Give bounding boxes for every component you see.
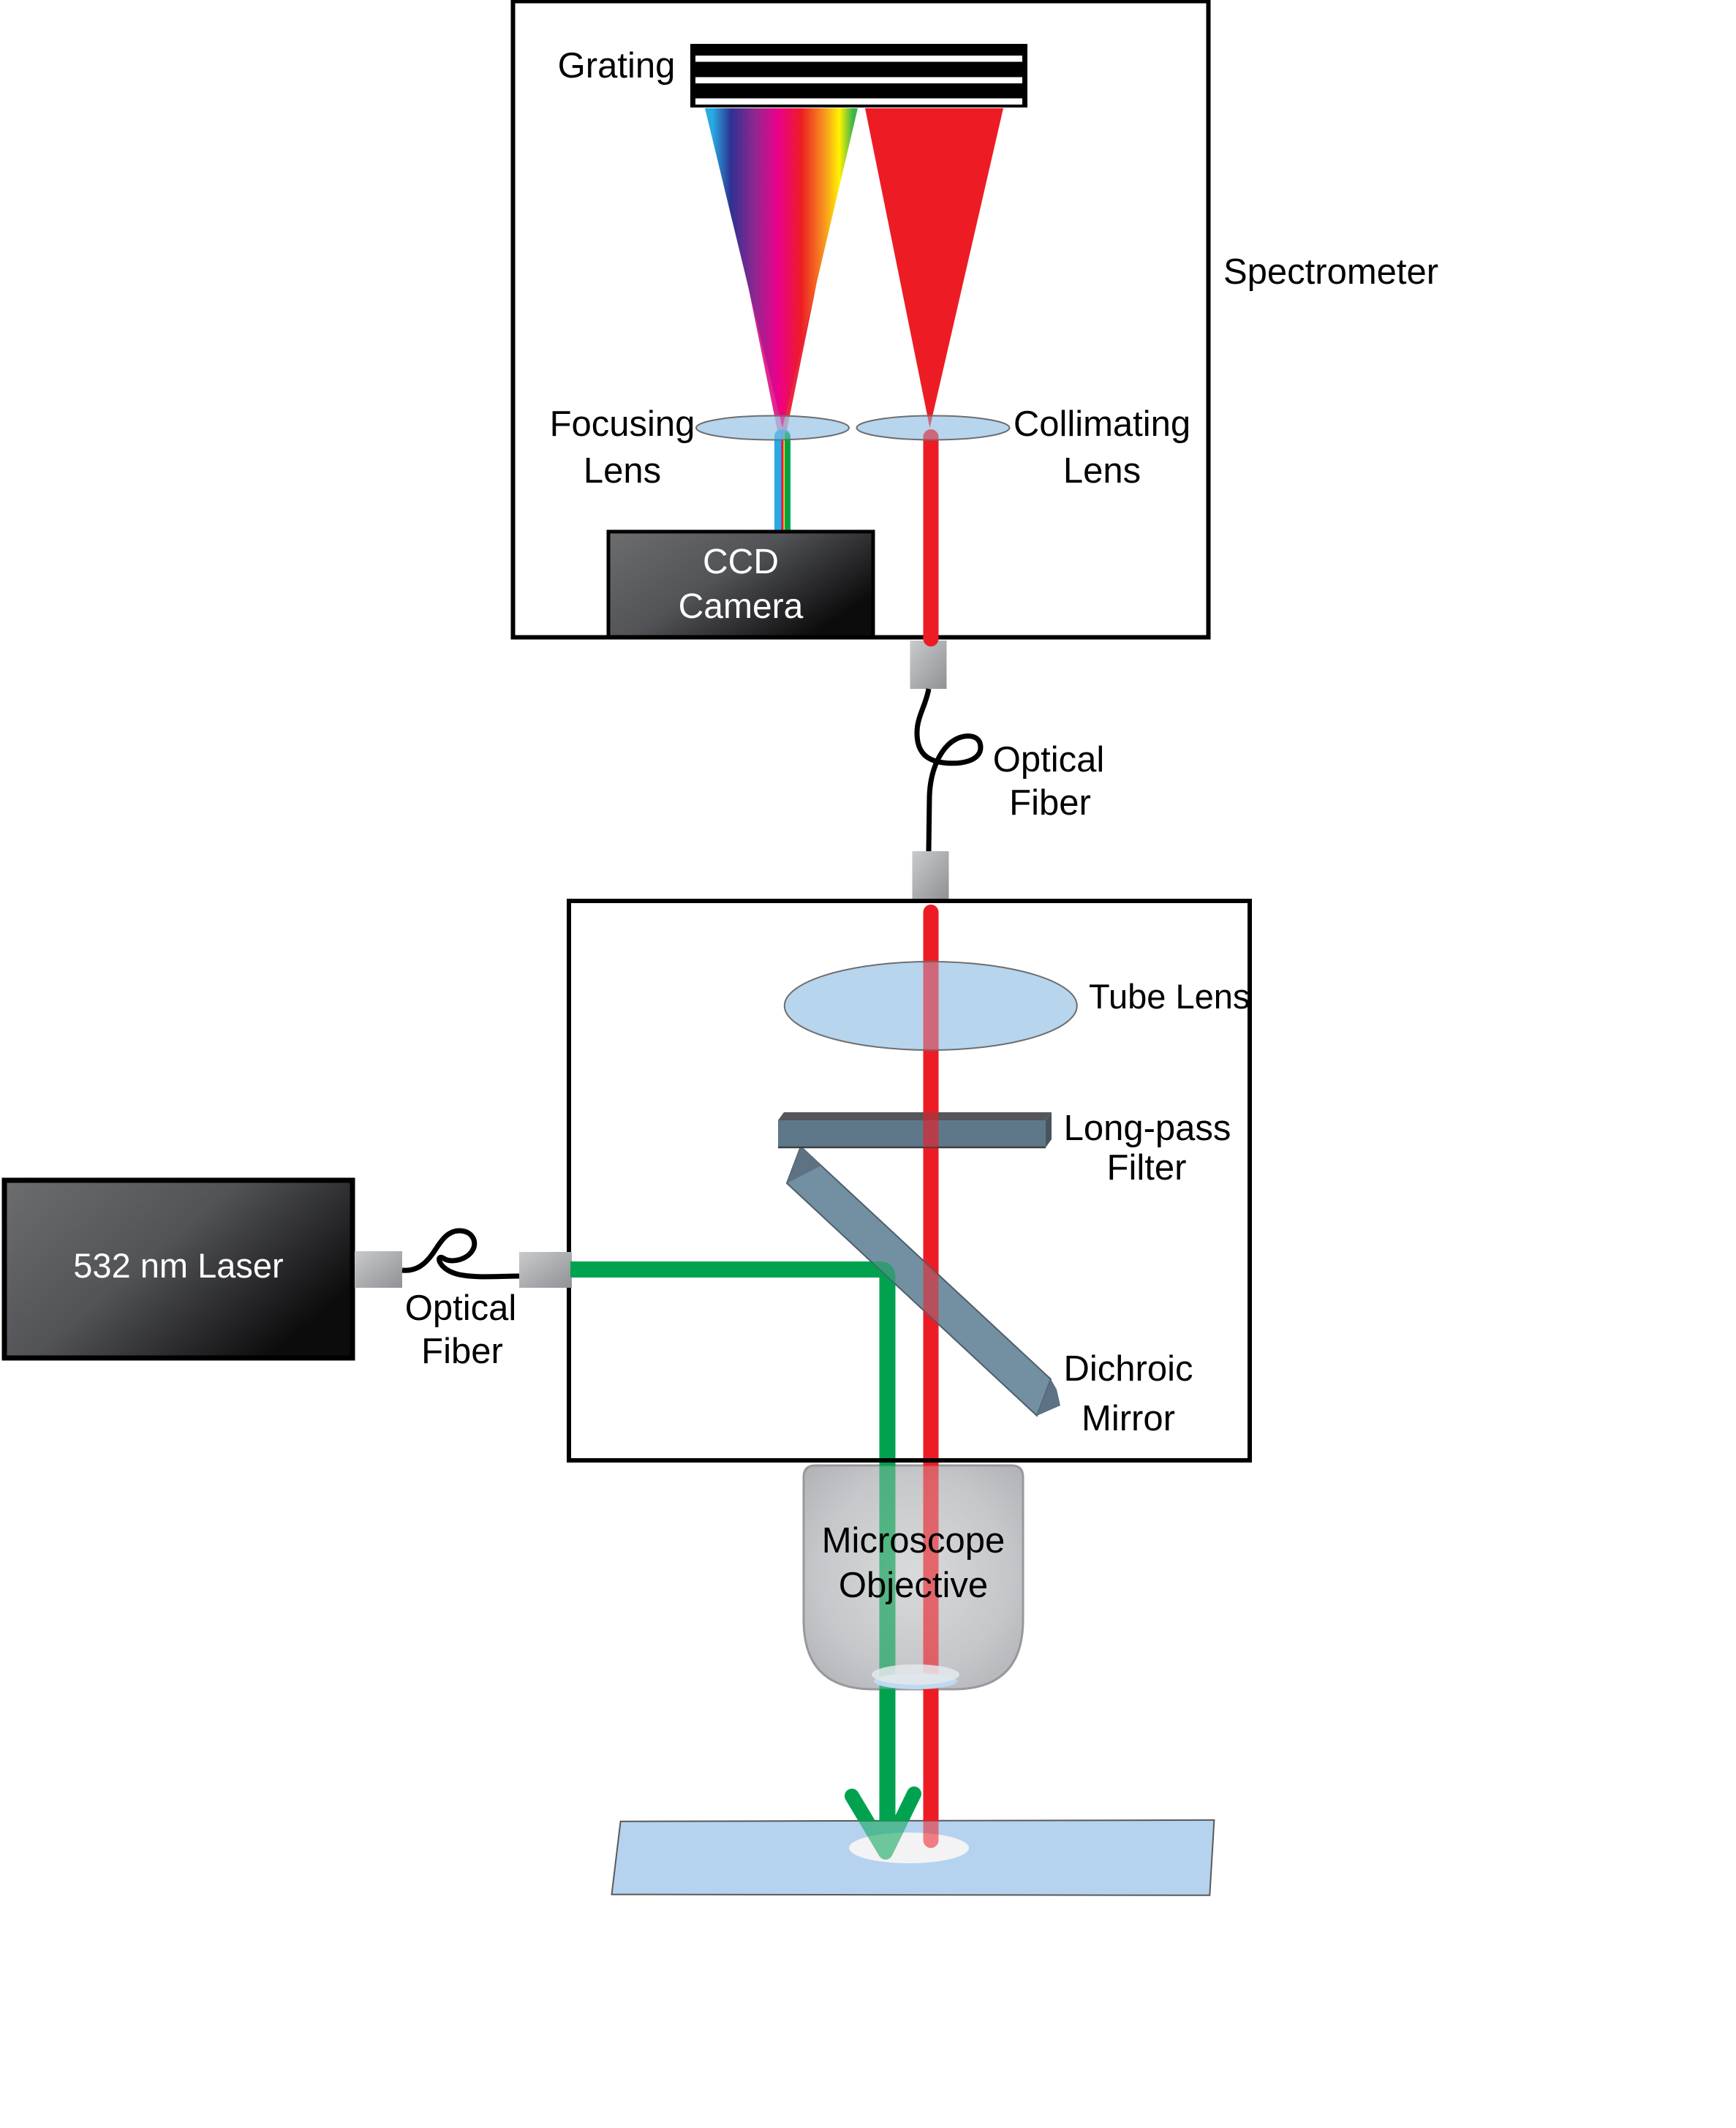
svg-text:Optical: Optical xyxy=(993,740,1105,780)
red beam cone xyxy=(865,108,1003,428)
rainbow narrow beam below focusing lens xyxy=(774,429,790,532)
svg-text:Microscope: Microscope xyxy=(822,1521,1005,1561)
svg-text:Grating: Grating xyxy=(558,46,676,86)
connector microscope top xyxy=(913,851,949,899)
sample spot xyxy=(849,1833,969,1863)
beams over slide xyxy=(852,905,939,1856)
svg-text:Lens: Lens xyxy=(1063,451,1141,491)
collimating lens xyxy=(857,416,1010,440)
optical fiber 1 xyxy=(917,689,981,851)
svg-text:Mirror: Mirror xyxy=(1082,1399,1175,1438)
svg-text:Spectrometer: Spectrometer xyxy=(1223,252,1438,292)
svg-text:Dichroic: Dichroic xyxy=(1064,1349,1193,1389)
svg-text:Collimating: Collimating xyxy=(1014,404,1190,444)
long-pass filter xyxy=(778,1112,1052,1147)
svg-text:Focusing: Focusing xyxy=(550,404,695,444)
cone edge slivers xyxy=(747,282,784,430)
optical fiber 2 xyxy=(402,1231,519,1277)
red beam spectrometer xyxy=(924,429,939,646)
tube lens xyxy=(785,962,1077,1050)
svg-text:CCD: CCD xyxy=(703,543,779,581)
rainbow over focusing lens xyxy=(705,108,858,532)
svg-text:532 nm Laser: 532 nm Laser xyxy=(73,1246,283,1285)
connector spectrometer bottom xyxy=(910,641,947,689)
connector laser output xyxy=(355,1251,402,1288)
microscope slide xyxy=(612,1820,1215,1895)
svg-text:Optical: Optical xyxy=(405,1289,517,1328)
532 nm laser xyxy=(4,1180,352,1358)
microscope box bottom border over beams xyxy=(569,1458,1250,1463)
objective front lens xyxy=(874,1673,957,1689)
spectrometer box xyxy=(513,1,1209,638)
rainbow dispersed beam cone xyxy=(705,108,858,428)
svg-text:Fiber: Fiber xyxy=(1009,783,1091,823)
red beam over collimating lens xyxy=(865,108,1003,646)
CCD camera xyxy=(608,532,873,637)
svg-text:Objective: Objective xyxy=(839,1566,988,1605)
green excitation beam xyxy=(570,905,939,1856)
svg-text:Lens: Lens xyxy=(584,451,661,491)
svg-text:Camera: Camera xyxy=(679,587,804,626)
svg-text:Long-pass: Long-pass xyxy=(1064,1109,1231,1148)
microscope objective xyxy=(804,1465,1023,1689)
focusing lens xyxy=(696,416,849,440)
microscope body box xyxy=(569,901,1250,1460)
svg-text:Tube Lens: Tube Lens xyxy=(1089,977,1250,1016)
connector microscope left xyxy=(519,1252,572,1288)
dichroic mirror xyxy=(787,1147,1051,1416)
beams through objective xyxy=(888,905,939,1853)
svg-text:Fiber: Fiber xyxy=(421,1332,503,1371)
grating xyxy=(690,44,1027,107)
svg-text:Filter: Filter xyxy=(1107,1148,1187,1188)
